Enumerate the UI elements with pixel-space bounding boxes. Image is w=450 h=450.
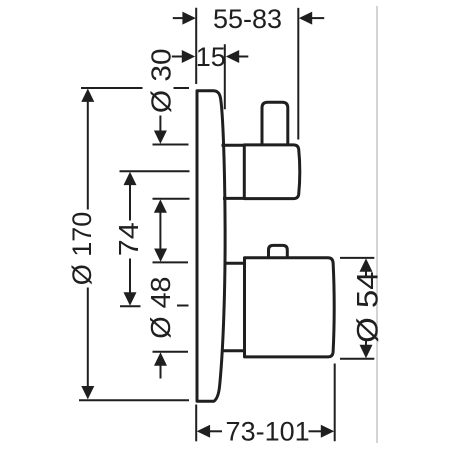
dimension 55-83: left arrow (173, 12, 196, 25)
dimension D48: top extension tick (153, 261, 189, 263)
dimension 15: right arrow (226, 50, 249, 63)
dimension D54: bottom extension tick (340, 358, 374, 360)
dimension 74: top arrow (pointing up) (124, 172, 137, 221)
dimension 74: top extension tick (120, 170, 190, 172)
thermostat handle (top) (244, 145, 299, 199)
dimension D30: bottom arrow (pointing up) + connector (154, 199, 167, 248)
dimension 74: bottom extension tick (right of label) (177, 305, 189, 307)
svg-text:74: 74 (113, 222, 145, 256)
shut-off handle (bottom) (245, 258, 335, 357)
dimension D30: top extension tick (153, 144, 189, 146)
dimension 15: left arrow (172, 50, 195, 63)
svg-text:55-83: 55-83 (213, 4, 282, 34)
dimension D54: top extension tick (340, 257, 374, 259)
dimension 74: bottom arrow (pointing down) (124, 259, 137, 306)
dimension D30: top arrow (pointing down) (154, 116, 167, 144)
dimension 73-101: left arrow (pointing left) (197, 425, 222, 438)
svg-text:15: 15 (196, 42, 226, 72)
dimension 73-101: right extension line (334, 364, 336, 442)
dimension 74: bottom extension tick (left of label) (120, 305, 141, 307)
faint page divider line (376, 6, 378, 443)
dimension 73-101: left extension line (195, 405, 197, 442)
dimension D30: bottom extension tick (153, 198, 190, 200)
dimension D54: top arrow (pointing up) (360, 258, 373, 276)
svg-text:Ø 48: Ø 48 (145, 276, 177, 338)
dimension D170: top arrow (pointing up) (81, 89, 94, 210)
escutcheon plate (side view) (197, 91, 225, 402)
dimension D54: bottom arrow (pointing down) (360, 340, 373, 358)
dimension 15: right extension line (224, 44, 226, 109)
top valve stem lower line (223, 197, 245, 200)
bottom valve stem lower line (223, 349, 246, 352)
bottom valve stem upper line (224, 262, 245, 265)
top valve stem upper line (222, 144, 245, 147)
dimension D48: top arrow (pointing down) (154, 249, 167, 262)
dimension 55-83: right extension line (297, 8, 299, 140)
dimension D170: top extension line (81, 87, 189, 89)
dimension D170: bottom arrow (pointing down) (81, 288, 94, 400)
dimension 73-101: right arrow (pointing right) (309, 425, 335, 438)
shut-off handle button (269, 245, 288, 257)
svg-text:Ø 54: Ø 54 (350, 271, 384, 343)
dimension D170: bottom extension line (79, 399, 189, 401)
dimension 55-83: left extension line (195, 8, 197, 84)
svg-text:Ø 30: Ø 30 (146, 48, 177, 113)
dimension D48: bottom extension tick (153, 351, 189, 353)
svg-text:Ø 170: Ø 170 (67, 212, 97, 286)
thermostat handle grip knob (262, 102, 288, 145)
svg-text:73-101: 73-101 (226, 417, 310, 447)
dimension D48: bottom arrow (pointing up) (154, 352, 167, 378)
dimension 55-83: right arrow (299, 12, 324, 25)
